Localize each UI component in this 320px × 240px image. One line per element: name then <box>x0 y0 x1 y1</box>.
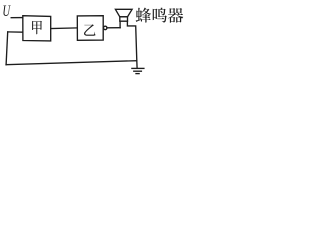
speaker left lead <box>119 21 121 28</box>
ground bar 3 <box>136 73 139 75</box>
buzzer label char 蜂 <box>136 8 151 23</box>
wire circle to speaker left lead <box>107 27 120 29</box>
speaker right lead down-right-down to rail <box>127 21 136 61</box>
wire bottom rail <box>6 61 137 65</box>
ground stem <box>136 61 138 69</box>
buzzer label char 器 <box>168 8 183 23</box>
wire box A to box B <box>51 27 78 30</box>
buzzer label char 鸣 <box>153 8 167 23</box>
speaker horn trapezoid <box>115 9 132 16</box>
wire upper input from U to box A <box>11 17 23 19</box>
ground bar 1 <box>132 67 144 69</box>
wire left vertical down to bottom rail <box>6 32 8 65</box>
terminal circle node <box>103 26 107 30</box>
box A (甲) <box>23 16 51 41</box>
wire lower input to box A <box>8 31 23 33</box>
box B (乙) <box>77 16 103 41</box>
box-A label 甲 <box>32 21 42 35</box>
label U (input voltage) <box>3 6 10 17</box>
ground bar 2 <box>134 70 142 72</box>
speaker driver rectangle <box>120 17 128 21</box>
box-B label 乙 <box>84 24 96 35</box>
